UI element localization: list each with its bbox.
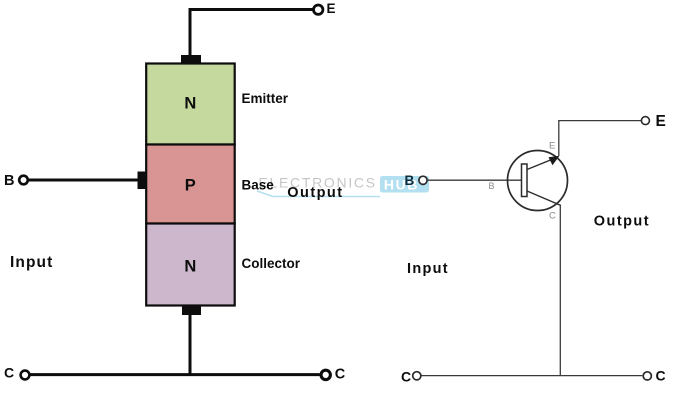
wire: emitter top horizontal (right diagram) — [558, 120, 641, 122]
svg-text:B: B — [4, 173, 14, 189]
wire: base horizontal — [29, 179, 138, 182]
base contact pad — [138, 172, 147, 190]
svg-text:N: N — [184, 258, 196, 276]
wire: collector bottom vertical — [189, 313, 192, 375]
terminal C circle right (left diagram) — [321, 370, 330, 379]
svg-text:P: P — [185, 177, 196, 195]
terminal E circle (left diagram) — [314, 5, 323, 14]
wire: emitter top horizontal — [189, 8, 314, 11]
svg-text:C: C — [4, 364, 14, 380]
terminal E circle (right diagram) — [641, 117, 649, 125]
svg-text:Input: Input — [10, 254, 53, 271]
transistor Q1 base bar — [522, 164, 528, 197]
svg-text:E: E — [327, 1, 336, 16]
emitter contact pad — [181, 55, 201, 63]
svg-text:Input: Input — [407, 261, 449, 277]
svg-text:B: B — [405, 173, 415, 188]
svg-text:Collector: Collector — [242, 256, 301, 271]
terminal B circle (left diagram) — [19, 176, 28, 185]
wire: collector vertical (right diagram) — [559, 205, 561, 375]
watermark swoosh — [257, 191, 380, 197]
svg-text:Emitter: Emitter — [242, 91, 289, 106]
terminal C circle left (right diagram) — [413, 372, 421, 380]
collector contact pad — [182, 306, 201, 315]
base region P (pink box) — [146, 145, 235, 224]
terminal C circle right (right diagram) — [643, 372, 651, 380]
svg-text:C: C — [656, 368, 666, 384]
terminal B circle (right diagram) — [419, 176, 427, 184]
wire: emitter top vertical — [189, 10, 192, 58]
watermark HUB chip — [380, 176, 429, 193]
svg-text:E: E — [656, 113, 666, 130]
svg-text:C: C — [401, 369, 411, 385]
svg-text:Output: Output — [594, 213, 650, 229]
svg-text:Base: Base — [242, 178, 275, 193]
emitter region N (green box) — [146, 64, 235, 145]
wire: base horizontal (right diagram) — [428, 179, 522, 181]
collector region N (purple box) — [146, 224, 235, 306]
svg-text:B: B — [489, 181, 495, 191]
transistor Q1 collector line — [527, 191, 561, 206]
terminal C circle left (left diagram) — [21, 371, 30, 380]
wire: bottom horizontal (right diagram) — [421, 375, 642, 377]
svg-text:E: E — [549, 141, 555, 152]
transistor Q1 emitter arrowhead — [549, 156, 560, 166]
svg-text:C: C — [335, 367, 346, 383]
wire: emitter vertical (right diagram) — [558, 121, 560, 156]
svg-text:C: C — [549, 211, 556, 222]
svg-text:N: N — [184, 95, 196, 113]
transistor Q1 body circle — [508, 151, 568, 211]
svg-text:Output: Output — [287, 185, 343, 201]
transistor Q1 emitter line with arrow — [527, 159, 553, 170]
wire: bottom horizontal (left diagram) — [30, 373, 320, 376]
